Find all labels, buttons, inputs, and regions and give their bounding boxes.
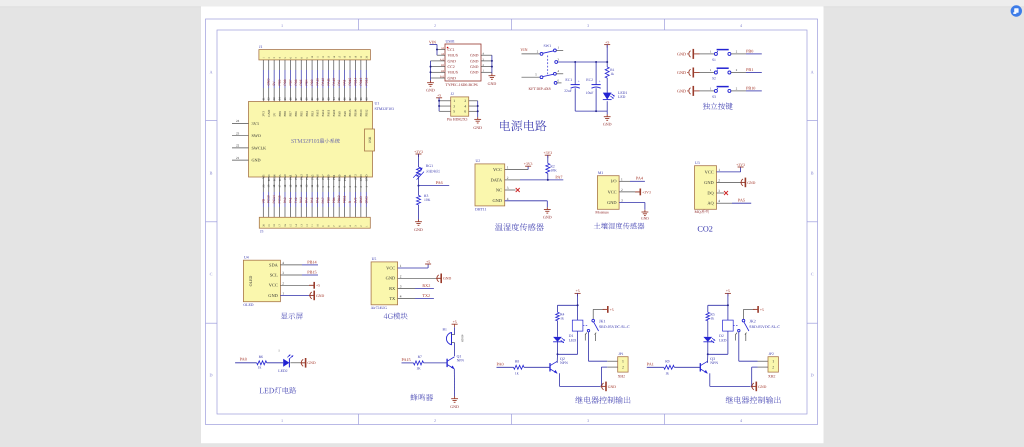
svg-text:23: 23 <box>236 131 240 135</box>
svg-text:JK2: JK2 <box>749 318 755 323</box>
svg-text:4: 4 <box>718 199 720 203</box>
svg-text:R8: R8 <box>515 360 519 364</box>
svg-text:RG1: RG1 <box>426 164 433 168</box>
svg-text:JK1: JK1 <box>599 318 605 323</box>
svg-text:2: 2 <box>718 178 720 182</box>
svg-text:22: 22 <box>236 144 240 148</box>
svg-text:NPN: NPN <box>457 359 465 363</box>
svg-text:USB1: USB1 <box>446 40 455 44</box>
svg-text:5: 5 <box>453 110 455 114</box>
svg-text:VCC: VCC <box>493 167 502 172</box>
svg-text:4102B: 4102B <box>461 335 464 343</box>
svg-text:PA7: PA7 <box>321 197 325 203</box>
node PA6 <box>418 180 450 187</box>
svg-text:PB14: PB14 <box>353 77 357 85</box>
svg-text:VIN: VIN <box>429 39 436 44</box>
svg-text:PA0: PA0 <box>497 362 504 367</box>
transistor Q3 NPN <box>700 354 750 386</box>
svg-text:GND: GND <box>267 78 271 86</box>
title: soil moisture sensor <box>594 222 645 229</box>
svg-text:PB1: PB1 <box>332 197 336 203</box>
svg-text:PA8: PA8 <box>343 79 347 85</box>
svg-text:PA11: PA11 <box>326 78 330 86</box>
GND power port at U5 <box>398 274 452 284</box>
svg-text:PA10: PA10 <box>332 109 336 116</box>
svg-text:CC1: CC1 <box>448 48 455 52</box>
svg-text:1k: 1k <box>710 316 714 320</box>
svg-text:PB6: PB6 <box>294 79 298 85</box>
title: relay control output (JK2) <box>726 396 781 403</box>
svg-text:3: 3 <box>587 23 589 28</box>
svg-text:1: 1 <box>281 23 283 28</box>
svg-text:GND: GND <box>450 404 459 409</box>
+5 power port at J2 <box>436 94 442 101</box>
U1 designator <box>375 102 395 112</box>
svg-text:PB10: PB10 <box>337 195 341 203</box>
svg-text:I/O: I/O <box>611 179 617 184</box>
push button S1 <box>677 48 762 62</box>
svg-text:3V3: 3V3 <box>252 121 259 126</box>
svg-text:SWCLK: SWCLK <box>252 145 267 150</box>
VIN net label at SW1 <box>520 47 527 52</box>
svg-text:B: B <box>811 171 814 176</box>
svg-text:EC1: EC1 <box>565 78 572 82</box>
capacitor EC2 10uF <box>586 62 601 111</box>
capacitor EC1 22uF <box>564 62 580 111</box>
+5 power port at U4 <box>280 282 320 289</box>
svg-text:VCC: VCC <box>608 189 617 194</box>
svg-text:1: 1 <box>400 264 402 268</box>
svg-text:GND: GND <box>443 277 451 281</box>
GND wire at M1 <box>619 203 645 210</box>
wire SW1 pin3 to filter rail <box>558 45 609 113</box>
svg-text:R3: R3 <box>424 194 428 198</box>
svg-text:GND: GND <box>386 276 396 281</box>
title: LED lamp circuit <box>260 387 297 394</box>
title: buzzer <box>410 394 433 401</box>
svg-text:PB0: PB0 <box>326 197 330 203</box>
svg-text:4: 4 <box>282 261 284 265</box>
+5 power port at relay JK2 <box>725 289 731 296</box>
svg-text:J1: J1 <box>259 45 262 49</box>
floating blue action button <box>1011 5 1022 16</box>
svg-text:1: 1 <box>621 177 623 181</box>
svg-text:Q3: Q3 <box>710 356 715 361</box>
svg-text:SRD-05VDC-SL-C: SRD-05VDC-SL-C <box>749 325 780 329</box>
PA8 net label <box>235 357 257 363</box>
svg-text:SCL: SCL <box>270 272 278 277</box>
svg-text:GND: GND <box>492 198 502 203</box>
svg-text:DHT11: DHT11 <box>475 207 487 211</box>
svg-text:PA6: PA6 <box>436 180 443 185</box>
svg-text:3: 3 <box>587 418 589 423</box>
svg-text:2: 2 <box>400 274 402 278</box>
svg-text:PC13: PC13 <box>267 195 271 203</box>
svg-text:PA11: PA11 <box>327 109 331 116</box>
module U5 Air724UG <box>371 257 402 310</box>
AQ wire to PA5 <box>717 198 752 204</box>
push button S2 <box>677 67 762 81</box>
svg-text:C: C <box>210 272 213 277</box>
svg-text:PA12: PA12 <box>321 78 325 86</box>
GND power port at U3 <box>717 178 756 188</box>
svg-text:2: 2 <box>464 99 466 103</box>
resistor R5 1k <box>706 305 715 337</box>
wire relay contact to connector JP1 <box>589 332 618 361</box>
svg-text:1: 1 <box>718 168 720 172</box>
resistor R3 10K <box>417 186 431 220</box>
svg-text:1: 1 <box>772 360 774 364</box>
svg-text:PB11: PB11 <box>343 196 347 204</box>
svg-text:XH2: XH2 <box>768 375 775 379</box>
svg-text:1K: 1K <box>416 367 421 371</box>
GND power port at relay JK2 <box>751 382 766 392</box>
wire JP2 pin2 to ground rail <box>751 367 768 387</box>
svg-text:SRD-05VDC-SL-C: SRD-05VDC-SL-C <box>599 325 630 329</box>
+3V3 at DHT11 VCC <box>505 162 533 170</box>
title: display <box>281 313 303 320</box>
svg-text:+3V3: +3V3 <box>414 150 423 154</box>
svg-text:GND: GND <box>677 51 686 56</box>
svg-text:2: 2 <box>434 23 436 28</box>
buzzer B1 <box>443 327 464 356</box>
svg-text:3: 3 <box>282 271 284 275</box>
resistor R1 1k <box>605 67 614 94</box>
svg-text:RX2: RX2 <box>422 283 430 288</box>
svg-text:1: 1 <box>281 418 283 423</box>
GND power port at U4 <box>280 291 324 301</box>
svg-text:PB12: PB12 <box>364 109 368 116</box>
relay switch contacts JK1 <box>585 309 604 341</box>
wires J1 to U1 with net labels <box>262 60 368 102</box>
svg-text:+5: +5 <box>576 289 580 293</box>
sensor M1 Moisture <box>595 171 623 215</box>
ground at USB1 right <box>488 74 497 87</box>
svg-text:GND: GND <box>470 59 479 63</box>
LED1 <box>603 91 628 111</box>
svg-text:OLED: OLED <box>243 303 253 307</box>
svg-text:CO2: CO2 <box>697 225 712 234</box>
svg-text:GND: GND <box>677 70 686 75</box>
svg-text:M1: M1 <box>598 171 603 175</box>
svg-text:PA15: PA15 <box>402 357 411 362</box>
svg-text:DATA: DATA <box>491 177 503 182</box>
svg-text:Moisture: Moisture <box>595 211 609 215</box>
svg-text:PA15: PA15 <box>316 78 320 86</box>
svg-text:2: 2 <box>434 418 436 423</box>
title: independent buttons <box>703 103 733 110</box>
svg-text:GND: GND <box>414 227 423 232</box>
svg-text:PB5: PB5 <box>299 79 303 85</box>
+5 power port at relay JK1 <box>575 289 581 296</box>
svg-text:GND: GND <box>473 125 482 130</box>
ground at DHT11 <box>543 207 552 219</box>
ground at R3 <box>414 220 423 233</box>
transistor Q2 NPN <box>550 354 600 386</box>
svg-text:GND: GND <box>316 294 324 298</box>
svg-text:PB8: PB8 <box>283 79 287 85</box>
svg-text:D: D <box>209 373 212 378</box>
svg-text:PB3: PB3 <box>310 111 314 117</box>
svg-text:2: 2 <box>772 366 774 370</box>
svg-text:+3V3: +3V3 <box>543 151 552 155</box>
connector JP1 XH2 <box>618 352 628 378</box>
svg-text:PA10: PA10 <box>332 78 336 86</box>
svg-text:PB3: PB3 <box>310 79 314 85</box>
svg-text:3: 3 <box>621 199 623 203</box>
svg-text:4: 4 <box>507 197 509 201</box>
connector JP2 XH2 <box>768 352 778 378</box>
svg-text:+5: +5 <box>605 40 609 44</box>
svg-text:PA9: PA9 <box>337 79 341 85</box>
pin header J3 (bottom) <box>259 217 370 233</box>
svg-text:KFT DIP-4X8: KFT DIP-4X8 <box>529 87 551 91</box>
svg-text:VB: VB <box>261 199 265 203</box>
svg-text:1: 1 <box>507 166 509 170</box>
svg-text:NC: NC <box>496 187 502 192</box>
svg-text:PA1: PA1 <box>647 362 654 367</box>
title: 4G module <box>384 313 408 320</box>
svg-text:STM32F103: STM32F103 <box>375 107 395 111</box>
svg-text:2: 2 <box>621 188 623 192</box>
svg-text:3: 3 <box>400 284 402 288</box>
svg-text:VCC: VCC <box>386 265 395 270</box>
svg-text:GND: GND <box>307 361 315 365</box>
svg-text:1k: 1k <box>665 372 669 376</box>
U1 left debug pins <box>232 119 266 162</box>
svg-text:PB4: PB4 <box>305 79 309 85</box>
LED D1 <box>553 334 576 355</box>
MCU U1 STM32F103 minimal system <box>249 102 373 182</box>
svg-text:1k: 1k <box>560 316 564 320</box>
resistor R4 1k <box>556 305 565 337</box>
svg-text:10uF: 10uF <box>586 91 594 95</box>
TX wire to TX2 <box>398 293 434 299</box>
svg-text:JP2: JP2 <box>769 352 774 356</box>
svg-text:S3: S3 <box>712 95 716 99</box>
svg-text:GND: GND <box>364 196 368 204</box>
svg-text:VCC: VCC <box>705 169 714 174</box>
svg-text:USB: USB <box>368 136 372 143</box>
+5 power port at buzzer <box>452 320 458 327</box>
svg-text:Pin HDR2X3: Pin HDR2X3 <box>447 118 468 122</box>
svg-text:R7: R7 <box>418 355 422 359</box>
svg-text:SW1: SW1 <box>544 44 552 48</box>
svg-text:GND: GND <box>359 196 363 204</box>
svg-text:DQ: DQ <box>707 190 714 195</box>
svg-text:SDA: SDA <box>269 262 279 267</box>
+5 power port above R1 <box>604 40 610 47</box>
SDA wire to PB14 <box>280 259 318 265</box>
wires J2 right to ground <box>469 101 479 117</box>
svg-text:+5: +5 <box>610 308 614 312</box>
net label PA1 <box>647 362 664 368</box>
svg-text:B1: B1 <box>443 327 447 331</box>
svg-text:VBUS: VBUS <box>448 71 458 75</box>
svg-text:PB13: PB13 <box>359 109 363 116</box>
svg-text:PA12: PA12 <box>321 109 325 116</box>
svg-text:10K: 10K <box>424 198 431 202</box>
svg-text:PB7: PB7 <box>288 79 292 85</box>
svg-text:GND: GND <box>488 81 497 86</box>
relay coil JK2 SRD-05VDC-SL-C <box>708 318 781 354</box>
+3V3 power port above R2 <box>543 151 552 158</box>
svg-text:XH2: XH2 <box>618 375 625 379</box>
+3V3 power port at RG1 <box>414 150 423 157</box>
svg-text:PB7: PB7 <box>289 111 293 117</box>
svg-text:OLED: OLED <box>248 276 253 287</box>
svg-text:D: D <box>811 373 814 378</box>
svg-text:LED: LED <box>569 339 577 343</box>
svg-text:PA6: PA6 <box>316 197 320 203</box>
resistor R6 1k <box>257 355 284 369</box>
svg-text:+5: +5 <box>316 284 320 288</box>
wire JP1 pin2 to ground rail <box>600 367 617 387</box>
svg-text:22uF: 22uF <box>564 89 572 93</box>
transistor Q1 NPN <box>447 354 464 396</box>
svg-text:+5: +5 <box>453 320 457 324</box>
svg-text:GND: GND <box>470 65 479 69</box>
display U4 OLED <box>243 256 284 308</box>
svg-text:TX2: TX2 <box>294 197 298 203</box>
svg-text:+3V3: +3V3 <box>736 163 745 167</box>
pin header J1 (top) <box>259 45 371 60</box>
wire +5 rail relay JK2 <box>708 293 729 320</box>
VIN net label at USB1 <box>429 39 436 44</box>
svg-text:CC2: CC2 <box>448 65 455 69</box>
svg-text:PC14: PC14 <box>272 195 276 203</box>
svg-text:GND: GND <box>704 180 714 185</box>
svg-text:AQ: AQ <box>707 201 714 206</box>
GND power port at relay JK1 <box>601 382 616 392</box>
svg-text:PB14: PB14 <box>307 259 317 264</box>
svg-text:PB15: PB15 <box>348 109 352 116</box>
svg-text:SWO: SWO <box>252 133 261 138</box>
MQ series label <box>695 210 709 214</box>
svg-text:PB13: PB13 <box>359 77 363 85</box>
svg-text:PA4: PA4 <box>636 176 644 181</box>
title: CO2 <box>697 225 712 234</box>
svg-text:MQ-: MQ- <box>695 210 703 214</box>
ground at J2 <box>473 117 482 130</box>
svg-text:PA7: PA7 <box>555 174 562 179</box>
svg-text:S2: S2 <box>712 77 716 81</box>
svg-text:PB5: PB5 <box>299 111 303 117</box>
GND power port at LED2 <box>300 358 315 368</box>
+3V3 power port at M1 <box>619 189 651 196</box>
svg-text:U3: U3 <box>695 161 700 165</box>
sheet border frame with zones <box>206 19 818 425</box>
svg-text:LED: LED <box>618 95 626 99</box>
svg-text:+5: +5 <box>726 289 730 293</box>
svg-text:LED2: LED2 <box>278 369 287 373</box>
svg-text:NPN: NPN <box>560 361 568 365</box>
svg-text:4: 4 <box>464 104 466 108</box>
svg-text:24: 24 <box>236 119 240 123</box>
svg-text:PB8: PB8 <box>283 111 287 117</box>
resistor R9 1k <box>664 360 701 376</box>
sensor U2 DHT11 <box>475 159 509 211</box>
svg-text:RX: RX <box>389 286 396 291</box>
svg-text:U4: U4 <box>244 256 249 260</box>
svg-text:1k: 1k <box>258 366 262 370</box>
svg-text:6: 6 <box>464 110 466 114</box>
svg-text:U2: U2 <box>476 159 481 163</box>
svg-text:GND: GND <box>267 109 271 116</box>
wire relay contact to connector JP2 <box>739 332 768 361</box>
svg-text:J3: J3 <box>260 230 263 234</box>
svg-text:1: 1 <box>282 291 284 295</box>
svg-text:3: 3 <box>507 186 509 190</box>
relay switch contacts JK2 <box>736 309 755 341</box>
wires J2 left to +5 <box>438 98 451 112</box>
svg-text:A: A <box>209 70 212 75</box>
USB connector USB1 TYPEC <box>440 40 485 87</box>
SCL wire to PB15 <box>280 269 318 275</box>
svg-text:PA9: PA9 <box>337 111 341 117</box>
title: temperature humidity sensor <box>495 223 544 231</box>
ground at buzzer <box>450 397 459 409</box>
svg-text:U5: U5 <box>372 257 377 261</box>
resistor R2 10K pullup <box>546 155 557 180</box>
svg-text:PC15: PC15 <box>278 195 282 203</box>
RX wire to RX2 <box>398 283 434 289</box>
+3V3 at U3 VCC <box>717 163 746 172</box>
DATA wire to PA7 <box>505 174 564 181</box>
svg-text:+: + <box>599 80 601 84</box>
svg-text:GND: GND <box>252 158 261 163</box>
svg-text:GND: GND <box>448 76 457 80</box>
switch SW1 KFT DIP-4X8 <box>522 44 564 91</box>
svg-text:PB15: PB15 <box>348 77 352 85</box>
wires USB1 left GND pins <box>430 61 446 81</box>
svg-text:A: A <box>811 70 814 75</box>
svg-text:PB9: PB9 <box>278 79 282 85</box>
pin header J2 <box>447 92 469 121</box>
relay coil JK1 SRD-05VDC-SL-C <box>558 318 631 354</box>
wires USB1 right GND pins <box>481 55 493 73</box>
svg-text:GND: GND <box>426 88 435 93</box>
svg-text:NPN: NPN <box>710 361 718 365</box>
svg-text:PA5: PA5 <box>738 198 745 203</box>
svg-text:VIN: VIN <box>520 47 527 52</box>
svg-text:GND: GND <box>470 54 479 58</box>
svg-text:U1: U1 <box>375 102 380 106</box>
NC pin with no-connect <box>505 188 520 192</box>
svg-text:+3V3: +3V3 <box>642 190 651 194</box>
svg-text:GND: GND <box>603 122 612 127</box>
svg-text:10K: 10K <box>550 169 557 173</box>
svg-text:GND: GND <box>607 200 617 205</box>
svg-text:GND: GND <box>747 181 755 185</box>
svg-text:PB14: PB14 <box>354 109 358 116</box>
svg-text:PA0: PA0 <box>283 197 287 203</box>
svg-text:1k: 1k <box>515 372 519 376</box>
svg-text:+: + <box>578 80 580 84</box>
svg-text:GND: GND <box>470 71 479 75</box>
svg-text:S1: S1 <box>712 58 716 62</box>
svg-text:GND: GND <box>268 293 278 298</box>
GND wire at DHT11 <box>505 201 548 208</box>
svg-text:+5: +5 <box>437 94 441 98</box>
resistor R8 1k <box>514 360 551 376</box>
svg-text:PB15: PB15 <box>307 269 316 274</box>
svg-text:GND: GND <box>543 215 552 220</box>
svg-text:GND: GND <box>641 217 649 221</box>
svg-text:1: 1 <box>622 360 624 364</box>
wire +5 rail relay JK1 <box>558 293 579 320</box>
USB tab on U1 <box>365 129 375 151</box>
